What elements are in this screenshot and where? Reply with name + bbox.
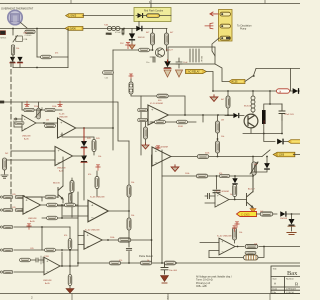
svg-text:Date: Date bbox=[273, 288, 278, 291]
power flag red a bbox=[25, 101, 29, 107]
wire Q4 collector bbox=[62, 157, 64, 186]
op-amp U1A bbox=[22, 115, 36, 140]
wire box internals bbox=[136, 15, 171, 17]
svg-text:LM324N: LM324N bbox=[96, 197, 105, 199]
svg-text:BC547: BC547 bbox=[244, 106, 251, 108]
resistor R33 on rail bbox=[140, 261, 151, 265]
net label RELAY out bbox=[186, 69, 207, 73]
capacitor C8 x129 bbox=[126, 232, 131, 264]
svg-text:330R: 330R bbox=[178, 126, 183, 128]
op-amp U7 H bbox=[43, 257, 60, 285]
resistor R10 below rail bbox=[221, 91, 230, 116]
resistor R17 input bbox=[138, 108, 148, 111]
pin stub left rail bbox=[0, 101, 4, 104]
svg-text:10V: 10V bbox=[264, 120, 266, 124]
svg-text:C-1305: C-1305 bbox=[241, 212, 250, 216]
wire y214 bbox=[257, 213, 301, 215]
flash unit box bbox=[134, 8, 171, 22]
svg-text:4558M: 4558M bbox=[161, 147, 168, 149]
op-amp U2B bbox=[152, 147, 171, 167]
ground flag brown A bbox=[164, 70, 171, 77]
resistor R44 vertical bbox=[68, 266, 72, 288]
resistor R35 vertical bbox=[233, 228, 237, 243]
wire x13 to bottom node bbox=[13, 54, 20, 68]
wire U1C out bbox=[73, 155, 85, 157]
wire row y227 bbox=[0, 225, 70, 250]
svg-text:C2R: C2R bbox=[23, 33, 28, 35]
feedback loop wire bbox=[209, 247, 264, 258]
wire label to flashbox y15.5 bbox=[83, 15, 134, 17]
fork marker red pin2 bbox=[205, 23, 213, 29]
svg-text:47uF 16V: 47uF 16V bbox=[285, 114, 295, 116]
resistor R48 bbox=[245, 251, 256, 254]
diode D4 on rail bbox=[136, 26, 142, 31]
op-amp U6 A2 bbox=[23, 196, 41, 223]
resistor chain R23 vertical bbox=[216, 115, 220, 141]
svg-text:10k: 10k bbox=[16, 48, 19, 50]
svg-text:10k: 10k bbox=[254, 244, 257, 246]
resistor R20 bbox=[177, 120, 188, 128]
resistor R42 bbox=[45, 248, 56, 252]
wire U1A inputs bbox=[14, 119, 22, 127]
vertical x129 bbox=[128, 141, 130, 232]
svg-text:100k: 100k bbox=[52, 106, 56, 108]
svg-text:Bax: Bax bbox=[287, 270, 298, 277]
svg-text:47k: 47k bbox=[55, 53, 58, 55]
svg-text:All Voltage are peak Variable: All Voltage are peak Variable disp.l bbox=[196, 276, 232, 279]
diode D10 bbox=[277, 139, 283, 145]
red flag above R35 bbox=[232, 226, 236, 232]
svg-text:L-5A06: L-5A06 bbox=[68, 28, 76, 31]
svg-text:LM324N: LM324N bbox=[223, 236, 232, 238]
svg-text:C05+ uAB: C05+ uAB bbox=[196, 285, 207, 288]
resistor R4 inside box (gold pill) bbox=[147, 14, 160, 18]
wire Q3 emitter bbox=[252, 208, 254, 215]
thermostat TH1 bbox=[8, 10, 22, 24]
wire U4 inputs bbox=[78, 236, 84, 245]
junction dots rail y91 bbox=[212, 90, 214, 92]
op-amp U1C bbox=[55, 146, 73, 172]
svg-text:AC05: AC05 bbox=[232, 81, 239, 84]
svg-text:1N4148: 1N4148 bbox=[138, 37, 146, 39]
diode D15 bbox=[280, 211, 286, 216]
capacitor C5 bbox=[213, 190, 220, 192]
wire y50 bbox=[113, 49, 153, 51]
svg-text:1N4148: 1N4148 bbox=[280, 218, 288, 220]
rail y263 bbox=[78, 262, 300, 264]
wire U1C inputs bbox=[5, 151, 56, 160]
ground flag red U2B bbox=[171, 165, 179, 172]
resistor chain R24 vertical bbox=[216, 138, 220, 156]
switch slant to label bbox=[262, 150, 270, 157]
net label C-1305 red bbox=[237, 212, 257, 217]
wire U4 out y240 bbox=[102, 240, 151, 263]
long vertical x78 bbox=[77, 192, 79, 263]
junction dots on y28 bbox=[131, 28, 133, 30]
resistor R19 bbox=[155, 120, 166, 124]
svg-text:1M: 1M bbox=[46, 120, 49, 122]
ground dark red bbox=[161, 276, 169, 284]
net label AC05 switch bbox=[229, 79, 245, 83]
capacitor C1 bbox=[115, 29, 124, 36]
svg-text:A-05: A-05 bbox=[45, 282, 50, 285]
capacitor C3 polar bbox=[176, 58, 188, 68]
red flag below U6 bbox=[27, 224, 31, 230]
svg-text:4558M: 4558M bbox=[156, 103, 163, 105]
resistor R32 bbox=[118, 238, 131, 242]
diode D5 (to supply) bbox=[129, 29, 146, 44]
svg-text:10k: 10k bbox=[98, 156, 101, 158]
svg-text:4558M: 4558M bbox=[222, 191, 229, 193]
wire y98 top of 4558 bbox=[141, 96, 185, 155]
resistor R41 bbox=[47, 216, 58, 220]
svg-text:1k: 1k bbox=[147, 260, 149, 262]
wire U1B out y128 bbox=[76, 127, 113, 129]
net label right edge bbox=[288, 140, 304, 144]
diode D2 bbox=[17, 57, 22, 63]
svg-text:10k: 10k bbox=[131, 215, 134, 217]
svg-text:LM324N: LM324N bbox=[91, 230, 100, 232]
svg-text:10k: 10k bbox=[221, 136, 224, 138]
op-amp U2C bbox=[215, 191, 229, 207]
svg-text:17/9/2023: 17/9/2023 bbox=[286, 289, 297, 291]
long vertical x162 bbox=[161, 150, 163, 263]
svg-text:Red Flash Conden: Red Flash Conden bbox=[144, 11, 164, 13]
connector J1 left edge bbox=[0, 31, 7, 40]
pot RV2 thyristor bbox=[250, 162, 258, 175]
svg-text:Pump: Pump bbox=[240, 28, 247, 31]
frame section tick top bbox=[71, 0, 265, 4]
capacitor C4 polar bbox=[279, 104, 295, 120]
fuse F2 vertical rings bbox=[129, 74, 141, 96]
wire U3A inputs bbox=[58, 206, 88, 216]
wire thermostat stem bbox=[21, 23, 28, 29]
svg-text:AC-RELAY: AC-RELAY bbox=[188, 71, 200, 74]
ground flag red U2 bbox=[142, 143, 149, 149]
svg-text:Number: Number bbox=[286, 278, 294, 281]
wire row y218 bbox=[42, 205, 78, 218]
resistor R25 vertical bbox=[95, 171, 99, 196]
resistor R26 vertical bbox=[127, 185, 131, 197]
op-amp U2A bbox=[148, 103, 168, 125]
resistor R31 bbox=[260, 212, 273, 216]
inductor L1 (three loops on rail) bbox=[106, 26, 120, 35]
svg-text:100k: 100k bbox=[110, 237, 114, 239]
left ladder row y197 bbox=[0, 195, 42, 201]
ground dark red bottom bbox=[66, 289, 74, 294]
wire U6 out y205 bbox=[41, 204, 79, 206]
op-amp U3A bbox=[88, 197, 108, 222]
svg-text:47k: 47k bbox=[219, 173, 222, 175]
resistor R18 input bbox=[138, 118, 148, 121]
resistor R15 vertical left edge bbox=[3, 158, 7, 174]
svg-text:220k: 220k bbox=[34, 106, 38, 108]
wire relay contact to switch bbox=[215, 64, 229, 82]
resistor R45 on rail bbox=[109, 261, 120, 265]
wire y176 row bbox=[162, 175, 253, 177]
capacitor C6 input bbox=[205, 193, 215, 203]
resistor R49 input bbox=[15, 122, 24, 125]
zener D9 thick bbox=[262, 110, 266, 124]
svg-text:L-5A05: L-5A05 bbox=[69, 15, 77, 18]
wire y67.5 bbox=[13, 67, 68, 69]
op-amp U4 I bbox=[84, 230, 102, 250]
label pill on x113 bbox=[103, 71, 114, 80]
resistor R43 vertical bbox=[68, 227, 72, 266]
wire U5 inputs bbox=[200, 243, 219, 258]
title block texts bbox=[273, 268, 299, 294]
zener D12 bbox=[81, 148, 87, 200]
svg-text:A: A bbox=[274, 282, 276, 286]
supply rail vertical x113 bbox=[112, 50, 114, 150]
wire U5 out bbox=[235, 246, 244, 248]
resistor R36 bbox=[245, 244, 258, 248]
svg-text:47k: 47k bbox=[119, 260, 122, 262]
svg-text:AC127: AC127 bbox=[248, 188, 255, 191]
net label L-IN (yellow pill) bbox=[65, 26, 83, 30]
wire x37 stub bbox=[36, 29, 38, 58]
zener D11 bbox=[81, 128, 87, 148]
wire x216 drop bbox=[215, 176, 217, 196]
ground left bbox=[1, 175, 8, 178]
power flag orange bbox=[250, 209, 256, 213]
wire x290 drop bbox=[290, 69, 292, 92]
diode D8 base bbox=[225, 113, 244, 118]
wire y141 row bbox=[264, 134, 290, 142]
wire emitter row y133 bbox=[243, 120, 282, 134]
capacitor C7 bbox=[161, 263, 178, 274]
svg-text:C:\SCH: C:\SCH bbox=[286, 292, 294, 294]
row y260 bits bbox=[20, 256, 45, 264]
svg-text:LM324N: LM324N bbox=[22, 136, 31, 138]
wire Q3 collector bbox=[252, 176, 254, 192]
inductor L2 vertical coil bbox=[251, 91, 255, 113]
svg-text:47k: 47k bbox=[88, 174, 91, 176]
wire top tick to box bbox=[150, 4, 152, 8]
relay box K1A bbox=[16, 36, 28, 42]
pin circle U1A bbox=[15, 118, 17, 120]
svg-text:Turns: 10+10+2t: Turns: 10+10+2t bbox=[196, 279, 213, 282]
svg-text:IC-05: IC-05 bbox=[59, 114, 65, 116]
resistor R28 bbox=[196, 174, 207, 178]
resistor R2 bbox=[11, 45, 14, 55]
junction and drop x291 bbox=[291, 213, 293, 215]
wire U1A out bbox=[36, 122, 58, 124]
svg-text:A-05: A-05 bbox=[30, 220, 35, 223]
wire x253 drop bbox=[252, 157, 254, 193]
title block bbox=[271, 266, 303, 294]
wire U7 out bbox=[60, 252, 78, 266]
mains rail y91 bbox=[213, 90, 300, 92]
frame section tick bottom bbox=[72, 294, 270, 300]
svg-text:1M: 1M bbox=[221, 120, 224, 122]
wire y137 feedback bbox=[62, 133, 94, 139]
long vertical x151.5 bbox=[151, 155, 153, 240]
svg-text:220k: 220k bbox=[205, 153, 209, 155]
resistor R30 vertical bbox=[233, 185, 237, 201]
relay coil box K1 bbox=[168, 47, 215, 64]
power flag red U2 bbox=[156, 146, 160, 157]
net label FLASH (yellow pill) bbox=[66, 14, 84, 18]
resistor R9 red outline bbox=[277, 89, 290, 94]
svg-text:470uF: 470uF bbox=[115, 32, 121, 34]
svg-text:RELAY: RELAY bbox=[200, 56, 203, 63]
resistor R22 on out bbox=[197, 155, 208, 159]
resistor R3 bbox=[37, 55, 68, 59]
svg-text:FUSE: FUSE bbox=[106, 34, 112, 36]
red value labels bbox=[5, 24, 288, 263]
connector J2 circulation pump bbox=[219, 10, 233, 42]
notes text bbox=[196, 276, 232, 289]
svg-text:10n 400: 10n 400 bbox=[169, 270, 178, 272]
resistor R14 vertical bbox=[92, 140, 96, 156]
resistor R5 vertical bbox=[151, 29, 155, 50]
resistor R6 vertical bbox=[165, 29, 169, 52]
switch SW1 bbox=[13, 29, 18, 43]
resistor R29 bbox=[219, 174, 229, 177]
resistor R39 bbox=[65, 203, 76, 207]
zener D6 bbox=[164, 60, 171, 69]
resistor R13 bbox=[45, 124, 56, 128]
diode D13 bbox=[253, 156, 270, 172]
svg-text:Pante Detect: Pante Detect bbox=[139, 255, 153, 258]
svg-text:10n: 10n bbox=[146, 62, 149, 64]
wire mains rail y28 bbox=[0, 28, 167, 30]
wire box bottom drop x139 bbox=[138, 22, 140, 29]
capacitor C2 bbox=[146, 57, 155, 64]
resistor R27 vertical bbox=[127, 218, 131, 230]
transistor Q1 bbox=[155, 48, 173, 57]
dashed bus left bbox=[10, 62, 12, 210]
svg-text:LM324N: LM324N bbox=[59, 116, 68, 118]
trimmer RV1 bbox=[35, 108, 42, 119]
ground bar brown bbox=[287, 233, 296, 235]
wire U3A out bbox=[108, 210, 129, 212]
wire Q4 emitter bbox=[62, 199, 64, 203]
wire U2C out to Q3 bbox=[229, 199, 247, 201]
op-amp U1B bbox=[58, 114, 76, 139]
resistor R16 bbox=[157, 94, 168, 102]
wire zener cap tops bbox=[264, 91, 282, 110]
trimmer R37 hatched bbox=[244, 255, 259, 260]
resistor R1 bbox=[25, 30, 36, 37]
wire y68 to edge bbox=[256, 68, 300, 70]
resistor R40 vertical above bbox=[68, 193, 71, 203]
svg-text:10k: 10k bbox=[131, 182, 134, 184]
frame bottom border bbox=[0, 293, 300, 295]
net label C-1306 bbox=[273, 152, 300, 157]
wire relay label to rail bbox=[207, 72, 214, 92]
wire cluster y110 bbox=[22, 102, 62, 110]
diode D1 bbox=[10, 57, 15, 63]
resistor R34 on rail bbox=[164, 261, 175, 265]
svg-text:10uF: 10uF bbox=[183, 62, 188, 64]
ground flag brown B bbox=[176, 70, 183, 77]
arrow marker red pin1 bbox=[210, 12, 218, 16]
switch SW2 bbox=[245, 69, 256, 82]
resistor R46 on y197 bbox=[26, 195, 58, 199]
resistor R11 bbox=[24, 108, 34, 111]
svg-text:C-1306: C-1306 bbox=[276, 154, 285, 157]
junction y67 bbox=[36, 67, 38, 69]
resistor R12 bbox=[45, 108, 55, 111]
svg-text:LM324N: LM324N bbox=[28, 218, 37, 220]
svg-text:50k: 50k bbox=[254, 164, 257, 166]
diode D3 inside box bbox=[138, 13, 144, 18]
svg-text:C2A: C2A bbox=[23, 38, 28, 41]
svg-text:A-05: A-05 bbox=[59, 169, 64, 172]
diode D16 down bbox=[288, 214, 295, 231]
ground flag red mid bbox=[210, 95, 218, 102]
transistor Q3 bbox=[247, 188, 256, 208]
frame top border bbox=[0, 3, 300, 5]
svg-text:MR05: MR05 bbox=[0, 38, 7, 40]
power flag red b bbox=[58, 101, 62, 107]
svg-text:10k: 10k bbox=[239, 232, 242, 234]
resistor R38 bbox=[47, 203, 58, 207]
junction x152 y50 bbox=[152, 49, 154, 51]
diode D14 bbox=[232, 176, 237, 184]
transistor Q4 bbox=[53, 183, 63, 200]
wire y122 feedback bbox=[150, 115, 203, 122]
svg-text:1k: 1k bbox=[230, 194, 232, 196]
diode D7 bbox=[293, 88, 299, 94]
svg-text:A-05: A-05 bbox=[24, 137, 29, 140]
resistor R21 vertical bbox=[144, 122, 148, 144]
svg-text:B: B bbox=[295, 281, 298, 286]
transistor Q2 BC547 bbox=[244, 106, 258, 128]
wire row y250 bbox=[0, 248, 78, 251]
left ladder row y210 bbox=[0, 208, 26, 211]
svg-text:C2R05: C2R05 bbox=[25, 35, 33, 37]
svg-text:LM324N: LM324N bbox=[43, 280, 52, 282]
svg-text:100k: 100k bbox=[185, 173, 189, 175]
wire pin3 down to relay bbox=[212, 38, 219, 56]
op-amp U5 bbox=[217, 236, 235, 255]
wire mains rail y102 bbox=[0, 102, 129, 141]
row y272 bbox=[0, 270, 45, 273]
power flag brown bbox=[129, 44, 135, 50]
svg-text:BD135: BD135 bbox=[53, 183, 60, 185]
power flag +V red bbox=[126, 43, 131, 49]
resistor R7 bbox=[139, 48, 150, 52]
red flag left bbox=[235, 222, 239, 228]
svg-text:Primary(+) uF: Primary(+) uF bbox=[196, 282, 211, 285]
wire out y246 cont bbox=[259, 246, 300, 248]
wire U2B out y156 bbox=[171, 156, 262, 158]
wire U2A out long bbox=[168, 114, 233, 116]
wire x68 drop bbox=[67, 29, 69, 68]
svg-text:AC127: AC127 bbox=[166, 49, 173, 52]
resistor R47 vertical x72 bbox=[70, 178, 74, 217]
svg-text:LM324N: LM324N bbox=[57, 168, 66, 170]
svg-text:47k: 47k bbox=[64, 235, 67, 237]
power flag red J bbox=[96, 165, 100, 171]
